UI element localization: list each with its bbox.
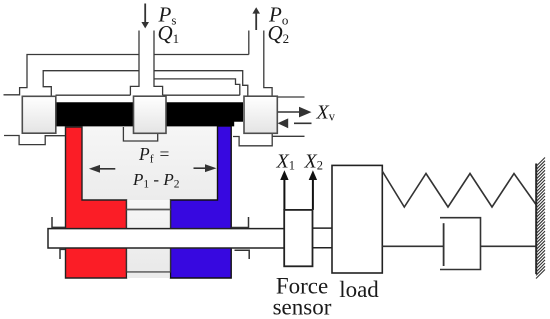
X1 arrow bbox=[283, 179, 285, 210]
spring bbox=[382, 171, 536, 207]
inner rectangle 2 bbox=[154, 79, 240, 95]
spool black bar bbox=[56, 102, 243, 126]
gray strip below piston bbox=[127, 273, 170, 278]
damper piston plate bbox=[443, 223, 445, 266]
damper rod right bbox=[481, 245, 537, 247]
land left bbox=[22, 96, 56, 133]
force sensor box bbox=[284, 210, 312, 266]
svg-text:X2: X2 bbox=[304, 151, 323, 173]
cylinder interior gray region bbox=[82, 126, 218, 200]
right tray below land bbox=[233, 134, 272, 146]
svg-text:Xv: Xv bbox=[316, 102, 336, 124]
land right bbox=[244, 96, 277, 133]
svg-text:X1: X1 bbox=[276, 151, 295, 173]
left gland tick below rod bbox=[60, 249, 65, 259]
connector sensor to load bbox=[312, 227, 332, 229]
piston crown line bbox=[127, 209, 171, 211]
Po return pipe bbox=[248, 31, 250, 55]
piston rod bbox=[48, 229, 284, 248]
svg-text:sensor: sensor bbox=[273, 295, 332, 319]
right port mouth lines bbox=[277, 96, 305, 98]
damper cup bbox=[440, 218, 481, 270]
right arrow in chamber bbox=[194, 167, 207, 169]
Xv right arrow bbox=[278, 111, 300, 113]
X2 arrow bbox=[312, 179, 314, 210]
Xv left arrow bbox=[278, 118, 289, 128]
red channel and left chamber bbox=[66, 127, 127, 278]
Ps supply pipe bbox=[130, 31, 139, 96]
inner rectangle 1 bbox=[43, 71, 139, 97]
piston bbox=[127, 200, 171, 272]
left floor line and tray bbox=[4, 136, 65, 145]
Po up arrow bbox=[255, 13, 257, 30]
svg-text:P1 - P2: P1 - P2 bbox=[132, 170, 180, 191]
middle tray below land bbox=[123, 127, 157, 141]
wall hatching bbox=[536, 158, 545, 279]
wall line bbox=[535, 164, 537, 275]
damper rod left bbox=[382, 245, 443, 247]
right gland tick below rod bbox=[235, 250, 250, 259]
right gland tick above rod bbox=[232, 217, 249, 228]
load box bbox=[332, 165, 382, 273]
land middle bbox=[134, 96, 167, 133]
left arrow in chamber bbox=[99, 168, 115, 170]
port ceiling lines bbox=[56, 94, 131, 96]
valve outer boundary left bbox=[4, 55, 140, 95]
Ps down arrow bbox=[144, 4, 146, 23]
blue channel and right chamber bbox=[171, 126, 232, 278]
svg-text:load: load bbox=[339, 277, 379, 302]
left gland tick above rod bbox=[52, 217, 65, 227]
valve outer top edge right part bbox=[154, 54, 249, 56]
